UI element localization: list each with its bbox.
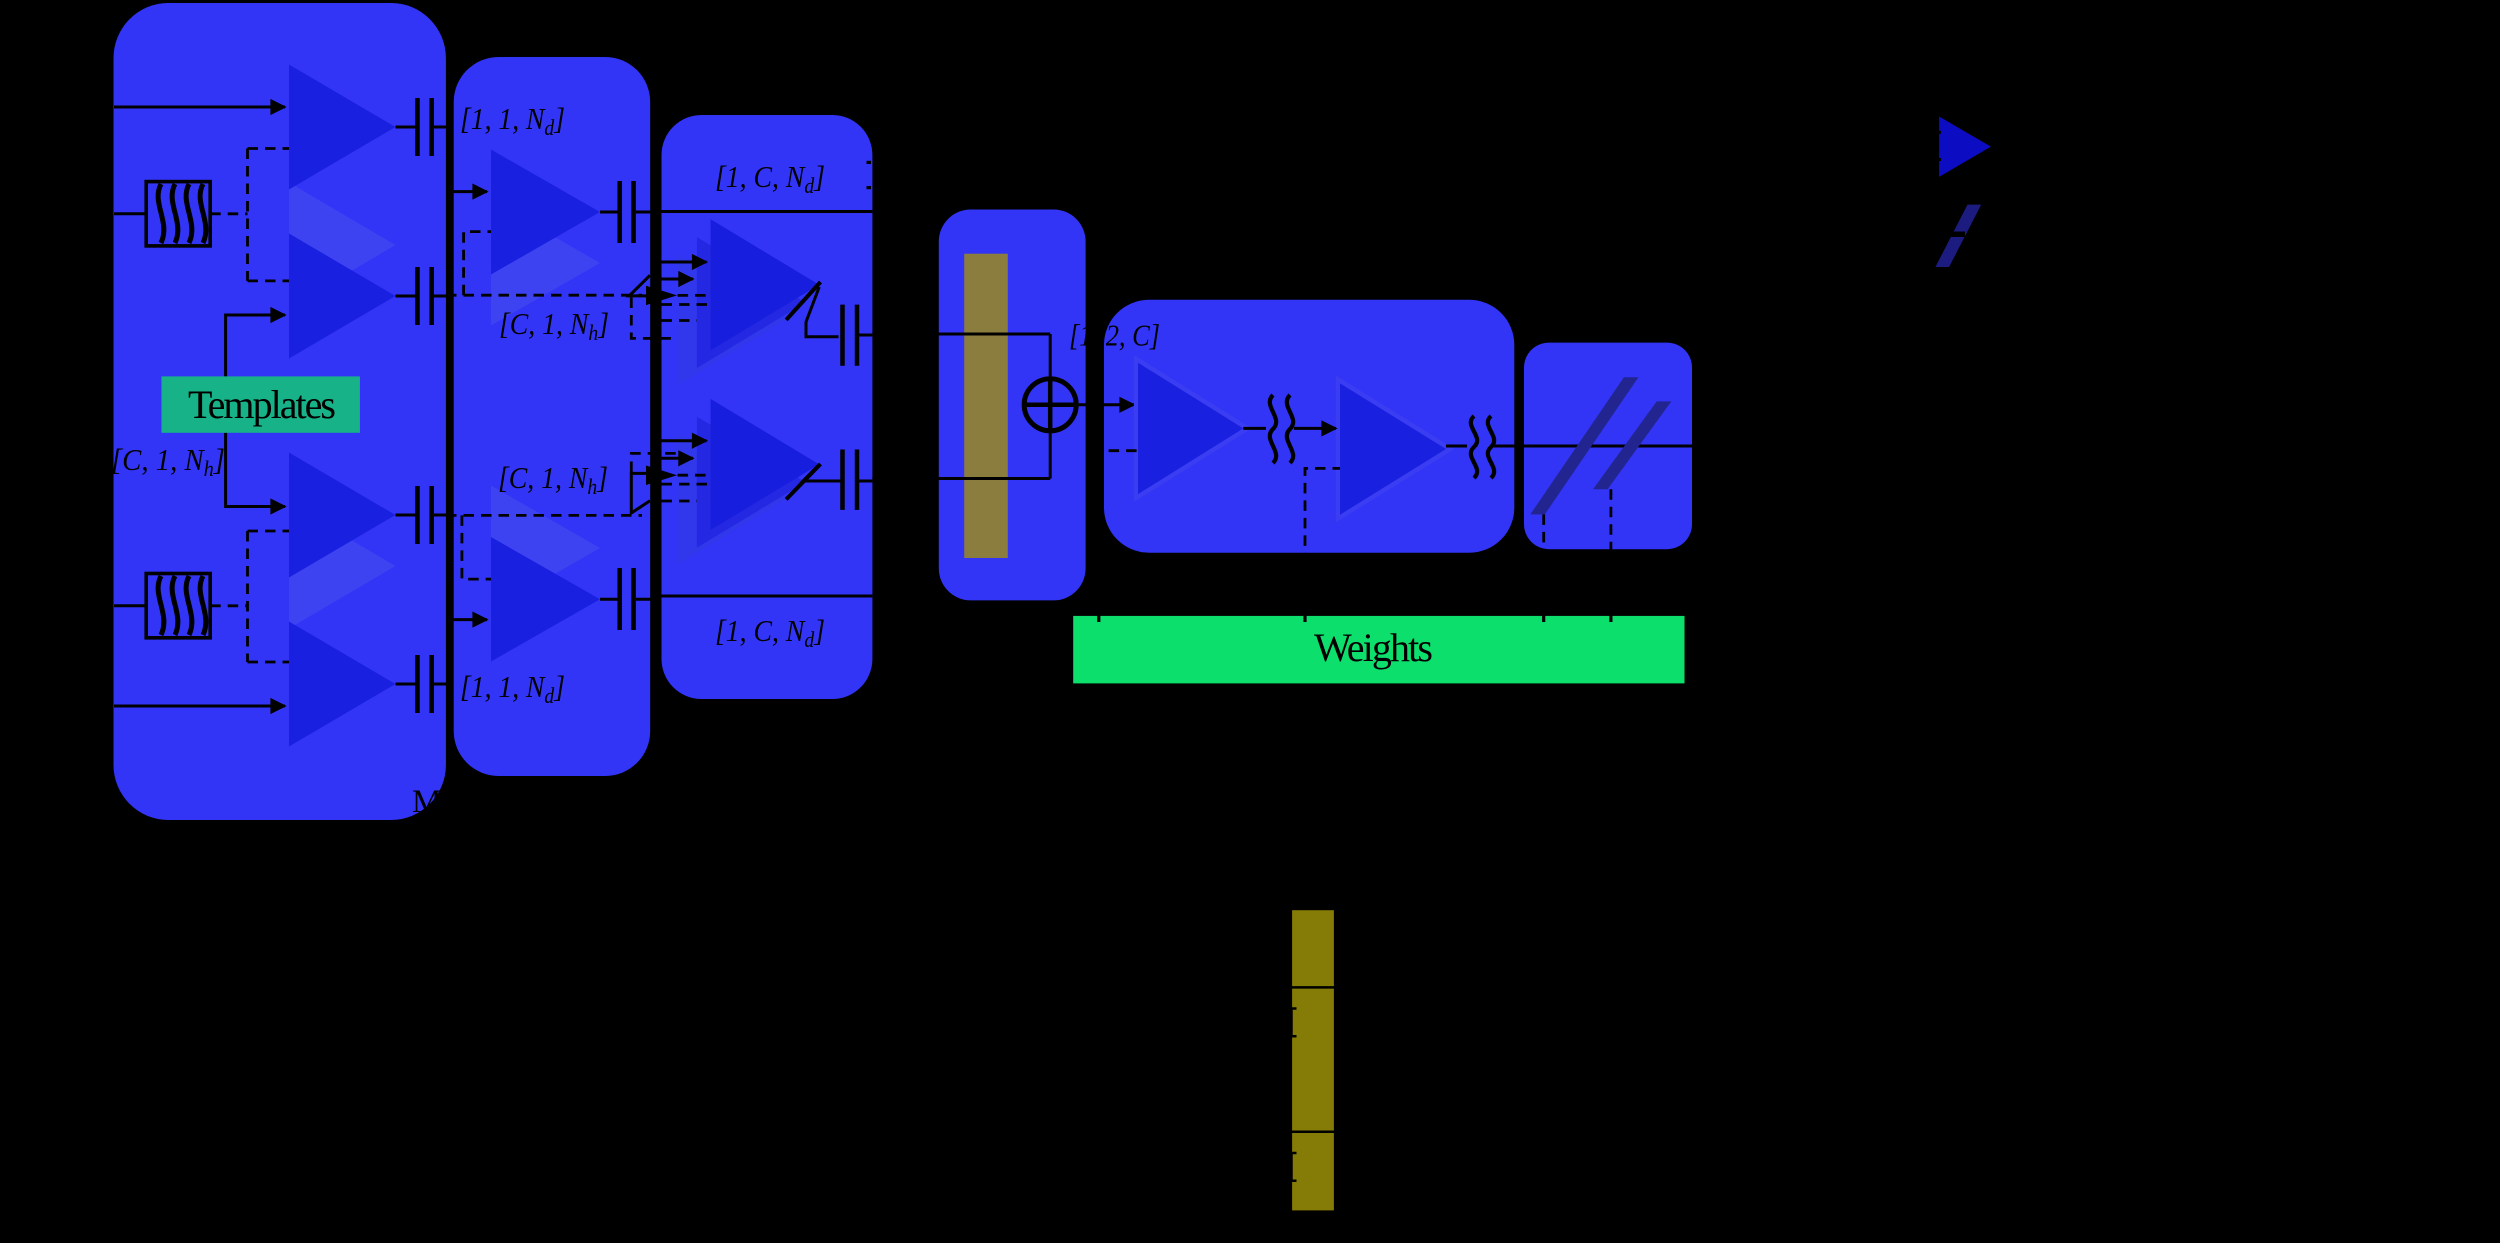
capacitor stack lower <box>843 450 873 510</box>
stack upper dashed inputs <box>662 303 711 306</box>
box5 amplifier V1 <box>1138 363 1243 494</box>
box5 light shadow V1 <box>1134 355 1252 502</box>
box1 matched-filter bank <box>114 3 446 820</box>
stack upper arrows <box>662 261 707 264</box>
dashed split vertical 2 <box>246 531 249 662</box>
dashed arrow into back tri lower <box>646 466 677 486</box>
dashed stub to T3 <box>248 530 290 533</box>
dashed stub to T2 <box>248 279 290 282</box>
dashed wire waveform1 to split <box>210 212 247 215</box>
box1 amplifier T4 <box>289 622 396 747</box>
template waveform block 2 <box>146 574 210 638</box>
stack lower arrows <box>662 439 707 442</box>
decimation slash 2 <box>1593 401 1671 489</box>
box1 amplifier T3 <box>289 453 396 578</box>
stack upper front <box>711 219 820 350</box>
stack upper out wire <box>806 287 839 337</box>
dashed riser lower <box>631 453 677 472</box>
box1 light amplifier shadow B <box>289 504 396 629</box>
svg-text:Weights: Weights <box>1314 625 1433 670</box>
dashed wire y294 to cone <box>446 294 642 297</box>
wire arrow input 4 <box>114 705 285 708</box>
box2 light shadow 2 <box>491 486 600 611</box>
V2 out wire <box>1446 445 1467 448</box>
break squiggle 1 <box>1270 395 1293 463</box>
slice cone upper outline <box>629 275 650 296</box>
svg-text:Templates: Templates <box>188 382 336 427</box>
box2 <box>454 57 651 776</box>
sum loop right verticals <box>1049 334 1052 379</box>
capacitor out T2 <box>396 267 447 325</box>
Templates box <box>162 376 360 432</box>
box3 wire bottom <box>662 595 873 598</box>
box3 wire top <box>662 210 873 213</box>
capacitor out T4 <box>396 655 447 713</box>
dashed weights into slash2 <box>1610 489 1613 616</box>
stack lower dashed inputs <box>662 483 711 486</box>
plus-sum node <box>1024 379 1076 431</box>
dashed split vertical 1 <box>246 149 249 281</box>
box2 amplifier U1 <box>491 150 600 275</box>
box3 <box>662 115 873 699</box>
slice cone lower outline <box>631 473 650 513</box>
legend slash <box>1935 205 1981 267</box>
box2 light shadow 1 <box>491 201 600 326</box>
sum loop bottom wire <box>872 477 1050 480</box>
svg-text:M: M <box>412 784 441 820</box>
wire into waveform 2 <box>114 604 146 607</box>
template waveform block 1 <box>146 182 210 246</box>
dashed weights into slash1 <box>1542 514 1545 616</box>
stack upper mid <box>697 237 806 368</box>
bracket fragment ticks on box3 edge <box>867 161 872 164</box>
wire arrow into U1 <box>446 190 487 193</box>
dashed stub to T4 <box>248 661 290 664</box>
dashed weights into V2 <box>1305 468 1340 616</box>
dashed stub to T1 <box>248 147 290 150</box>
wire sum to box5 <box>1076 403 1134 406</box>
legend tick 1 <box>1933 131 1941 134</box>
stack lower out wire <box>803 464 841 481</box>
box1 amplifier T1 <box>289 65 396 190</box>
legend tick 2 <box>1933 158 1941 161</box>
column divider 2 <box>1291 1130 1335 1133</box>
dashed arrow into back tri upper <box>646 286 677 305</box>
olive output column <box>1291 909 1335 1211</box>
box5 amplifier V2 <box>1340 383 1446 514</box>
capacitor stack upper <box>843 305 873 366</box>
stack lower mid <box>697 417 806 548</box>
box1 amplifier T2 <box>289 234 396 359</box>
column bracket 2 <box>1292 1153 1297 1181</box>
legend slash notch <box>1951 232 1965 238</box>
capacitor out U1 <box>600 181 662 243</box>
wire templates to T2 <box>226 315 285 376</box>
box6 decimation block <box>1524 343 1692 550</box>
box5 light shadow V2 <box>1336 376 1455 523</box>
legend conv triangle <box>1939 117 1991 177</box>
Weights box <box>1073 616 1684 684</box>
capacitor out U2 <box>600 568 662 630</box>
wire into waveform 1 <box>114 212 146 215</box>
capacitor out T1 <box>396 98 447 156</box>
dashed riser into U2 <box>462 515 491 579</box>
wire arrow input 1 <box>114 106 285 109</box>
V1 out wire <box>1243 427 1266 430</box>
wire arrow into U2 <box>446 618 487 621</box>
wire templates to T3 <box>226 433 285 507</box>
sum loop top wire <box>872 333 1050 336</box>
olive bar in box4 <box>964 254 1008 558</box>
dashed L upper <box>631 298 677 339</box>
wire through box6 <box>1494 445 1694 448</box>
box5 conv block <box>1104 300 1514 553</box>
column bracket 1 <box>1292 1009 1297 1037</box>
dashed riser into U1 <box>464 232 491 296</box>
break squiggle 2 <box>1471 416 1494 478</box>
wire into V2 <box>1294 427 1336 430</box>
column divider 1 <box>1291 986 1335 989</box>
box4 sum block <box>939 210 1086 601</box>
dashed wire waveform2 to split <box>210 604 247 607</box>
stack upper back <box>678 254 787 385</box>
box2 amplifier U2 <box>491 537 600 662</box>
decimation slash 1 <box>1530 377 1638 514</box>
dashed wire y515 to cone <box>446 514 642 517</box>
weights tick nubs <box>1097 609 1100 622</box>
box1 light amplifier shadow A <box>289 183 396 308</box>
slash lower <box>786 464 820 499</box>
stack lower back <box>678 433 787 564</box>
svg-text:[1, 2, C]: [1, 2, C] <box>1069 318 1160 353</box>
slash upper <box>786 282 820 320</box>
capacitor out T3 <box>396 486 447 544</box>
dashed weights into V1 <box>1099 451 1138 616</box>
stack lower front <box>711 399 820 530</box>
